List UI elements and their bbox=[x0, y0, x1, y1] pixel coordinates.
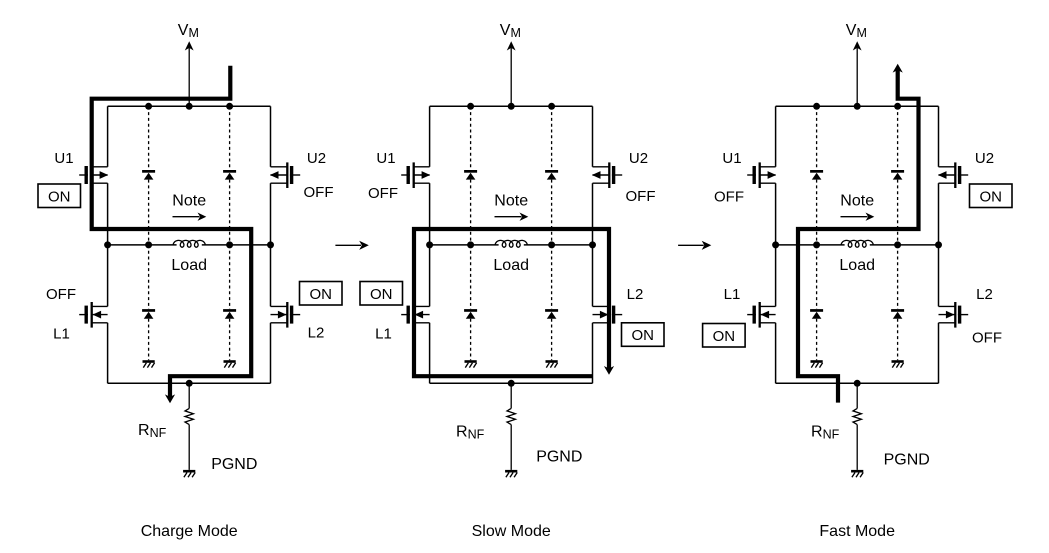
svg-text:L2: L2 bbox=[627, 286, 644, 303]
svg-text:OFF: OFF bbox=[46, 286, 76, 303]
wire: dashed column A upper-lower half (circuit 2) bbox=[470, 180, 472, 245]
net VM (circuit 3) supply line with up arrow bbox=[853, 41, 862, 106]
wire: right leg lower (circuit 3) bbox=[938, 245, 940, 307]
svg-text:U1: U1 bbox=[722, 150, 741, 167]
diode DAu (circuit 3) bbox=[810, 170, 823, 180]
net VM (circuit 1) supply line with up arrow bbox=[185, 41, 194, 106]
wire: dashed column A to ground (circuit 3) bbox=[816, 319, 818, 361]
wire: dashed column B upper-lower half (circuit 3) bbox=[897, 180, 899, 245]
bold current path: Slow Mode (loop through L1, Load, L2) bbox=[414, 229, 614, 376]
transistor U1 (circuit 2) (high-side left) bbox=[401, 162, 430, 188]
ON box for L1 (circuit 2) bbox=[360, 282, 403, 306]
svg-text:Slow Mode: Slow Mode bbox=[472, 523, 551, 540]
ground PGND symbol (circuit 1) bbox=[183, 470, 195, 477]
svg-text:U1: U1 bbox=[54, 150, 73, 167]
diode DAl (circuit 2) bbox=[464, 309, 477, 319]
ground (column A, circuit 2) bbox=[465, 360, 477, 367]
wire: middle rail left (circuit 3) bbox=[776, 244, 845, 246]
svg-text:Load: Load bbox=[839, 257, 875, 274]
svg-text:L2: L2 bbox=[308, 325, 325, 342]
ON box for L2 (circuit 2) bbox=[622, 323, 665, 347]
diode DAu (circuit 2) bbox=[464, 170, 477, 180]
wire: right leg upper (circuit 2) bbox=[592, 106, 594, 167]
svg-text:L1: L1 bbox=[724, 286, 741, 303]
wire: dashed column A to ground (circuit 2) bbox=[470, 319, 472, 361]
svg-text:U1: U1 bbox=[376, 150, 395, 167]
wire: bottom rail to resistor (circuit 2) bbox=[510, 383, 512, 408]
wire: dashed column A to ground (circuit 1) bbox=[148, 319, 150, 361]
svg-text:U2: U2 bbox=[975, 150, 994, 167]
wire: left leg bottom (circuit 3) bbox=[775, 323, 777, 384]
wire: middle rail right (circuit 1) bbox=[202, 244, 271, 246]
svg-text:ON: ON bbox=[980, 188, 1003, 205]
wire: left leg lower (circuit 3) bbox=[775, 245, 777, 307]
svg-text:ON: ON bbox=[713, 328, 736, 345]
diode DBu (circuit 3) bbox=[891, 170, 904, 180]
transition arrow: Slow to Fast bbox=[678, 241, 711, 250]
diode DBu (circuit 2) bbox=[545, 170, 558, 180]
wire: dashed column A upper-lower half (circuit 1) bbox=[148, 180, 150, 245]
wire: top rail (circuit 1) bbox=[108, 105, 271, 107]
wire: left leg lower (circuit 1) bbox=[107, 245, 109, 307]
wire: dashed column A upper (circuit 2) bbox=[470, 106, 472, 170]
transistor U1 (circuit 1) (high-side left) bbox=[79, 162, 108, 188]
transistor L1 (circuit 3) (low-side left) bbox=[747, 302, 775, 328]
wire: dashed column A upper (circuit 1) bbox=[148, 106, 150, 170]
wire: bottom rail to resistor (circuit 3) bbox=[856, 383, 858, 408]
wire: dashed column B upper-lower half (circuit 2) bbox=[551, 180, 553, 245]
svg-text:U2: U2 bbox=[629, 150, 648, 167]
diode DAl (circuit 3) bbox=[810, 309, 823, 319]
wire: bottom rail (circuit 2) bbox=[430, 382, 593, 384]
svg-text:OFF: OFF bbox=[368, 185, 398, 202]
wire: right leg bottom (circuit 1) bbox=[270, 323, 272, 384]
wire: right leg lower (circuit 2) bbox=[592, 245, 594, 307]
svg-text:L1: L1 bbox=[53, 326, 70, 343]
wire: dashed column B lower (circuit 1) bbox=[229, 245, 231, 309]
wire: bottom rail (circuit 1) bbox=[108, 382, 271, 384]
ground (column B, circuit 3) bbox=[892, 360, 904, 367]
svg-text:ON: ON bbox=[48, 188, 71, 205]
wire: dashed column B to ground (circuit 2) bbox=[551, 319, 553, 361]
wire: right leg upper (circuit 1) bbox=[270, 106, 272, 167]
wire: dashed column A upper (circuit 3) bbox=[816, 106, 818, 170]
wire: right leg bottom (circuit 3) bbox=[938, 323, 940, 384]
svg-text:Load: Load bbox=[171, 257, 207, 274]
node: bottom rail junction to RNF (circuit 3) bbox=[854, 380, 861, 387]
svg-text:PGND: PGND bbox=[211, 456, 257, 473]
wire: middle rail left (circuit 2) bbox=[430, 244, 499, 246]
wire: left leg lower (circuit 2) bbox=[429, 245, 431, 307]
wire: middle rail right (circuit 3) bbox=[870, 244, 939, 246]
node: top rail junction dots (circuit 2) bbox=[467, 103, 555, 110]
resistor RNF (circuit 2) bbox=[507, 408, 515, 424]
wire: bottom rail (circuit 3) bbox=[776, 382, 939, 384]
svg-text:U2: U2 bbox=[307, 150, 326, 167]
node: bottom rail junction to RNF (circuit 2) bbox=[508, 380, 515, 387]
wire: dashed column A lower (circuit 3) bbox=[816, 245, 818, 309]
wire: middle rail left (circuit 1) bbox=[108, 244, 177, 246]
transistor U2 (circuit 1) (high-side right) bbox=[270, 162, 300, 188]
ground (column A, circuit 3) bbox=[811, 360, 823, 367]
svg-text:OFF: OFF bbox=[714, 189, 744, 206]
resistor RNF (circuit 1) bbox=[185, 408, 193, 424]
wire: dashed column B upper (circuit 2) bbox=[551, 106, 553, 170]
wire: dashed column A upper-lower half (circuit 3) bbox=[816, 180, 818, 245]
wire: top rail (circuit 3) bbox=[776, 105, 939, 107]
svg-text:Note: Note bbox=[494, 193, 528, 210]
svg-text:OFF: OFF bbox=[304, 184, 334, 201]
svg-text:PGND: PGND bbox=[884, 452, 930, 469]
bold current path: Charge Mode (VM through U1, Load, toward RNF) bbox=[92, 66, 252, 404]
inductor Load (circuit 3) bbox=[841, 240, 873, 247]
wire: resistor to PGND (circuit 3) bbox=[856, 425, 858, 470]
wire: left leg bottom (circuit 1) bbox=[107, 323, 109, 384]
wire: dashed column A lower (circuit 2) bbox=[470, 245, 472, 309]
wire: resistor to PGND (circuit 1) bbox=[188, 425, 190, 470]
wire: left leg upper (circuit 1) bbox=[107, 106, 109, 167]
svg-text:L1: L1 bbox=[375, 326, 392, 343]
ground PGND symbol (circuit 2) bbox=[505, 470, 517, 477]
wire: right leg lower (circuit 1) bbox=[270, 245, 272, 307]
wire: right leg mid (circuit 1) bbox=[270, 183, 272, 245]
wire: top rail (circuit 2) bbox=[430, 105, 593, 107]
svg-text:Load: Load bbox=[493, 257, 529, 274]
svg-text:OFF: OFF bbox=[626, 188, 656, 205]
node: middle rail junction dots (circuit 3) bbox=[772, 241, 942, 248]
resistor RNF (circuit 3) bbox=[853, 408, 861, 424]
ground (column A, circuit 1) bbox=[143, 360, 155, 367]
note arrow (circuit 2) bbox=[495, 213, 529, 221]
diode DBu (circuit 1) bbox=[223, 170, 236, 180]
wire: dashed column B to ground (circuit 3) bbox=[897, 319, 899, 361]
wire: left leg upper (circuit 2) bbox=[429, 106, 431, 167]
wire: dashed column B to ground (circuit 1) bbox=[229, 319, 231, 361]
wire: left leg bottom (circuit 2) bbox=[429, 323, 431, 384]
wire: dashed column B lower (circuit 3) bbox=[897, 245, 899, 309]
svg-text:OFF: OFF bbox=[972, 329, 1002, 346]
wire: left leg mid (circuit 3) bbox=[775, 183, 777, 245]
wire: right leg upper (circuit 3) bbox=[938, 106, 940, 167]
wire: dashed column B upper (circuit 1) bbox=[229, 106, 231, 170]
ON box for U2 (circuit 3) bbox=[970, 184, 1013, 208]
svg-text:ON: ON bbox=[310, 286, 333, 303]
wire: right leg mid (circuit 3) bbox=[938, 183, 940, 245]
wire: right leg bottom (circuit 2) bbox=[592, 323, 594, 384]
svg-text:Charge Mode: Charge Mode bbox=[141, 523, 238, 540]
transistor U2 (circuit 3) (high-side right) bbox=[938, 162, 968, 188]
net VM (circuit 2) supply line with up arrow bbox=[507, 41, 516, 106]
wire: middle rail right (circuit 2) bbox=[524, 244, 593, 246]
diode DAl (circuit 1) bbox=[142, 309, 155, 319]
node: top rail junction dots (circuit 1) bbox=[145, 103, 233, 110]
ON box for L1 (circuit 3) bbox=[703, 324, 746, 348]
diode DBl (circuit 1) bbox=[223, 309, 236, 319]
ON box for L2 (circuit 1) bbox=[300, 282, 343, 306]
node: middle rail junction dots (circuit 1) bbox=[104, 241, 274, 248]
note arrow (circuit 3) bbox=[841, 213, 875, 221]
transistor U1 (circuit 3) (high-side left) bbox=[747, 162, 776, 188]
svg-text:Note: Note bbox=[840, 193, 874, 210]
ON box for U1 (circuit 1) bbox=[38, 184, 81, 208]
bold current path: Fast Mode (from RNF through L1, Load, U2 to VM) bbox=[798, 64, 919, 403]
inductor Load (circuit 1) bbox=[173, 240, 205, 247]
diode DAu (circuit 1) bbox=[142, 170, 155, 180]
diode DBl (circuit 2) bbox=[545, 309, 558, 319]
transistor L2 (circuit 1) (low-side right) bbox=[271, 302, 301, 328]
transistor L1 (circuit 2) (low-side left) bbox=[401, 302, 429, 328]
diode DBl (circuit 3) bbox=[891, 309, 904, 319]
wire: right leg mid (circuit 2) bbox=[592, 183, 594, 245]
transistor U2 (circuit 2) (high-side right) bbox=[592, 162, 622, 188]
wire: dashed column B upper (circuit 3) bbox=[897, 106, 899, 170]
ground (column B, circuit 1) bbox=[224, 360, 236, 367]
svg-text:ON: ON bbox=[370, 286, 393, 303]
inductor Load (circuit 2) bbox=[495, 240, 527, 247]
wire: left leg mid (circuit 1) bbox=[107, 183, 109, 245]
node: top rail junction dots (circuit 3) bbox=[813, 103, 901, 110]
node: bottom rail junction to RNF (circuit 1) bbox=[186, 380, 193, 387]
wire: left leg mid (circuit 2) bbox=[429, 183, 431, 245]
svg-text:PGND: PGND bbox=[536, 449, 582, 466]
svg-text:Note: Note bbox=[172, 193, 206, 210]
svg-text:ON: ON bbox=[632, 327, 655, 344]
wire: dashed column A lower (circuit 1) bbox=[148, 245, 150, 309]
wire: bottom rail to resistor (circuit 1) bbox=[188, 383, 190, 408]
ground (column B, circuit 2) bbox=[546, 360, 558, 367]
transistor L2 (circuit 2) (low-side right) bbox=[593, 302, 623, 328]
wire: dashed column B lower (circuit 2) bbox=[551, 245, 553, 309]
transistor L1 (circuit 1) (low-side left) bbox=[79, 302, 107, 328]
svg-text:L2: L2 bbox=[976, 286, 993, 303]
svg-text:Fast Mode: Fast Mode bbox=[819, 523, 895, 540]
wire: dashed column B upper-lower half (circuit 1) bbox=[229, 180, 231, 245]
node: middle rail junction dots (circuit 2) bbox=[426, 241, 596, 248]
transition arrow: Charge to Slow bbox=[335, 241, 368, 250]
transistor L2 (circuit 3) (low-side right) bbox=[939, 302, 969, 328]
ground PGND symbol (circuit 3) bbox=[851, 470, 863, 477]
note arrow (circuit 1) bbox=[173, 213, 207, 221]
wire: resistor to PGND (circuit 2) bbox=[510, 425, 512, 470]
wire: left leg upper (circuit 3) bbox=[775, 106, 777, 167]
